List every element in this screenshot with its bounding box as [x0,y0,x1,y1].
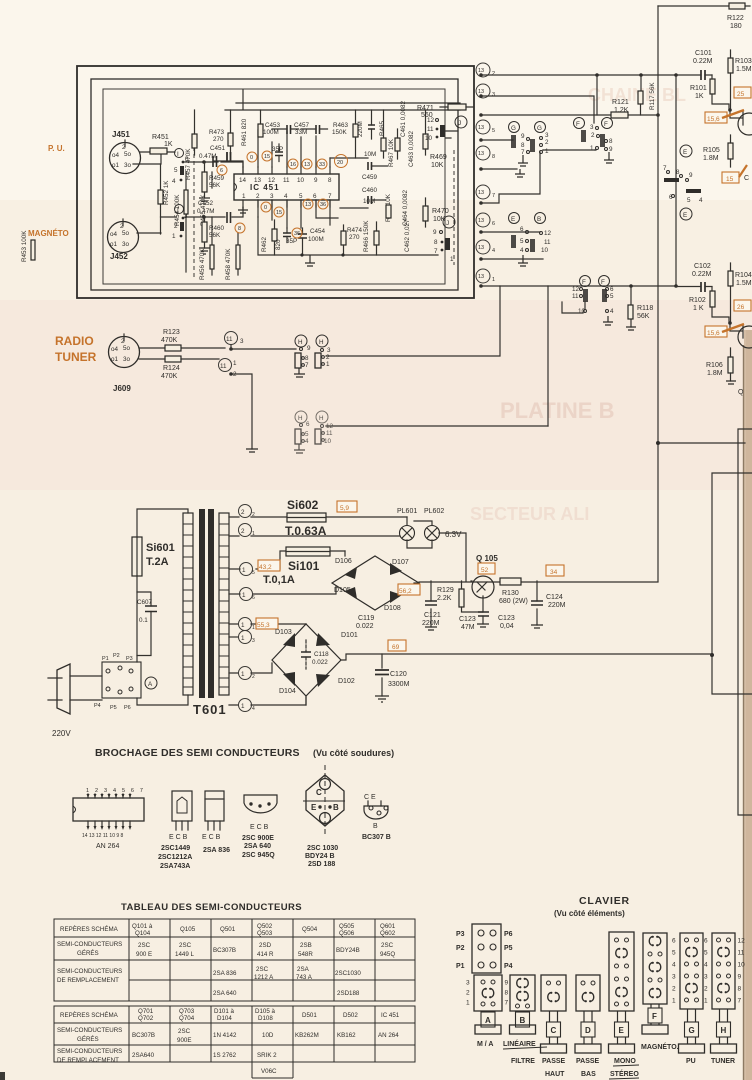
dashed separator line 2 [453,150,455,265]
resistor R465 [379,110,386,158]
svg-text:2SD188: 2SD188 [337,990,360,997]
svg-text:AN 264: AN 264 [96,843,119,850]
svg-text:F: F [576,121,580,128]
svg-text:Q105: Q105 [180,926,196,933]
transistor pkg 2SC1030 [303,765,345,868]
svg-text:H: H [298,415,303,422]
svg-text:945Q: 945Q [380,951,395,958]
clavier switch F [642,933,668,1034]
svg-text:2: 2 [252,512,255,518]
svg-text:34: 34 [550,569,558,576]
clavier switch E [609,932,635,1053]
resistor R105 [703,135,733,167]
orange box 15,6 top [705,110,744,123]
svg-text:2SC 945Q: 2SC 945Q [242,852,275,859]
svg-text:2SC1212A: 2SC1212A [158,854,192,861]
svg-text:6.3V: 6.3V [445,530,462,539]
svg-text:2SA 836: 2SA 836 [203,847,230,854]
capacitor C451 coupling 0.47M [199,153,217,167]
svg-text:414 R: 414 R [257,951,274,958]
wire bridge out [341,654,712,660]
clavier switch G [672,933,705,1053]
svg-text:6: 6 [672,938,676,945]
svg-text:(Vu côté éléments): (Vu côté éléments) [554,909,625,918]
capacitor C121 [422,581,441,630]
resistor R463 [332,110,358,158]
svg-text:2SC1449: 2SC1449 [161,845,190,852]
svg-text:56K: 56K [209,182,221,189]
svg-text:R121: R121 [612,99,629,106]
transistor Q102 [730,323,752,348]
svg-text:R103: R103 [735,58,752,65]
svg-text:10K: 10K [431,162,444,169]
svg-text:H: H [319,415,324,422]
svg-text:E C B: E C B [250,824,269,831]
svg-text:B: B [537,216,541,223]
svg-text:10M: 10M [364,151,376,158]
label C119 [356,615,374,630]
svg-text:BDY24 B: BDY24 B [305,853,335,860]
ground under 11 [246,449,258,452]
svg-text:743 A: 743 A [296,974,313,981]
wire R121 R117 [597,75,641,115]
svg-text:11: 11 [738,950,745,957]
svg-text:SEMI-CONDUCTEURS: SEMI-CONDUCTEURS [57,1048,122,1055]
resistor R122 [727,3,745,30]
svg-text:2SC: 2SC [381,942,394,949]
svg-text:8: 8 [328,177,332,184]
clavier switch A [466,975,509,1034]
svg-text:G: G [511,125,516,132]
svg-text:4: 4 [699,197,703,204]
svg-text:7: 7 [738,998,742,1005]
svg-text:10: 10 [297,177,305,184]
svg-text:Q: Q [738,389,744,396]
capacitor C124 [531,581,566,628]
svg-text:CLAVIER: CLAVIER [579,895,630,907]
svg-text:5: 5 [492,128,495,134]
switch circle J2 [443,216,455,228]
svg-text:R130: R130 [502,590,519,597]
semiconductor table 1 [54,919,415,1001]
svg-text:1: 1 [466,1000,470,1007]
svg-text:180: 180 [730,23,742,30]
svg-text:Q104: Q104 [135,930,151,937]
svg-text:15: 15 [276,210,282,216]
svg-text:2: 2 [256,193,260,200]
svg-text:D502: D502 [343,1012,358,1019]
svg-text:C: C [316,788,322,797]
svg-text:15: 15 [264,154,270,160]
label MAGNETO [28,229,69,238]
clavier labels [477,1039,735,1079]
resistor R123 [161,329,181,351]
svg-text:E C B: E C B [169,834,188,841]
svg-text:G: G [537,125,542,132]
lamps PL601 PL602 [397,508,466,581]
orange box 34 [546,565,564,576]
resistor R458 [225,245,240,280]
svg-text:1: 1 [672,998,676,1005]
svg-text:220M: 220M [422,620,440,627]
wire upper link [547,286,549,426]
ghost print pink [470,85,686,524]
svg-text:E: E [683,212,687,219]
svg-text:5,9: 5,9 [340,505,349,512]
svg-text:1: 1 [242,567,246,574]
svg-text:11: 11 [226,336,233,343]
svg-text:R456 470K: R456 470K [199,248,206,280]
vertical bus 2 [675,75,677,286]
svg-text:R457 470K: R457 470K [185,148,192,180]
svg-text:R459: R459 [209,175,225,182]
capacitor C461 [400,100,407,137]
wire pin row C [481,113,660,117]
orange box 26 [734,300,751,311]
svg-text:220M: 220M [357,121,364,137]
svg-text:R461 820: R461 820 [241,118,248,146]
svg-text:7: 7 [434,248,438,255]
svg-text:3: 3 [492,92,495,98]
orange box 56,2 [398,584,420,595]
svg-text:220M: 220M [548,602,566,609]
svg-text:B: B [333,803,339,812]
svg-text:4: 4 [672,962,676,969]
svg-text:5: 5 [687,197,691,204]
svg-text:3o: 3o [123,356,131,363]
svg-text:DE REMPLACEMENT: DE REMPLACEMENT [57,1057,119,1064]
svg-text:Si101: Si101 [288,559,320,573]
label Q102 [738,389,744,396]
svg-text:R105: R105 [703,147,720,154]
svg-text:6: 6 [520,226,524,233]
svg-text:C123: C123 [459,616,476,623]
svg-text:52: 52 [481,567,489,574]
node Q102 base [728,321,732,325]
capacitor C607 [137,592,157,656]
svg-text:C: C [744,175,749,182]
svg-text:MONO: MONO [614,1058,636,1065]
svg-text:R118: R118 [637,305,653,312]
svg-text:15: 15 [726,176,734,183]
svg-text:6: 6 [306,421,310,428]
resistor R471 [417,104,474,119]
svg-text:5: 5 [610,293,614,300]
orange measure points [217,151,348,238]
svg-text:5: 5 [704,950,708,957]
svg-text:D501: D501 [302,1012,317,1019]
svg-text:9: 9 [314,177,318,184]
svg-text:2: 2 [326,354,330,361]
transformer T601 core [199,509,214,698]
svg-text:2: 2 [233,371,237,378]
svg-text:R453 100K: R453 100K [21,230,28,262]
svg-text:2: 2 [591,132,595,139]
svg-text:(Vu côté soudures): (Vu côté soudures) [313,748,394,758]
svg-text:C118: C118 [314,651,329,658]
resistor R124 [161,356,181,380]
svg-text:33: 33 [319,162,325,168]
svg-text:2SB: 2SB [300,942,312,949]
svg-text:6: 6 [220,168,223,174]
svg-text:R460: R460 [209,225,225,232]
svg-text:PL601: PL601 [397,508,417,515]
svg-text:0,04: 0,04 [500,623,514,630]
svg-text:2SC1030: 2SC1030 [335,970,361,977]
svg-text:5o: 5o [122,230,130,237]
resistor R460 [199,217,225,254]
svg-text:7: 7 [328,193,332,200]
svg-text:69: 69 [392,644,400,651]
capacitor C101 [676,50,713,80]
wire bottom channel [137,207,243,233]
fuse Si602 [285,498,327,538]
svg-text:C121: C121 [424,612,441,619]
svg-text:3: 3 [672,974,676,981]
svg-text:270: 270 [349,234,360,241]
svg-text:3: 3 [270,193,274,200]
svg-text:MAGNÉTO: MAGNÉTO [28,229,69,238]
resistor R103 [728,50,752,110]
resistor R453 [21,230,35,262]
svg-text:4: 4 [492,248,495,254]
capacitor C464 [402,189,409,226]
svg-text:270: 270 [213,136,224,143]
transistor pkg BC307B [362,794,391,841]
svg-text:2SC: 2SC [256,966,269,973]
svg-text:9: 9 [307,345,311,352]
svg-text:D101: D101 [341,632,358,639]
svg-text:D103: D103 [275,629,292,636]
svg-text:8: 8 [305,355,309,362]
svg-text:2SD 188: 2SD 188 [308,861,335,868]
svg-text:D105 à: D105 à [255,1008,276,1015]
svg-text:R124: R124 [163,365,180,372]
svg-text:o4: o4 [111,346,119,353]
svg-text:GÉRÉS: GÉRÉS [77,950,99,957]
svg-text:16: 16 [290,162,296,168]
svg-text:Si602: Si602 [287,498,319,512]
svg-text:55,3: 55,3 [257,622,270,629]
svg-text:8: 8 [434,239,438,246]
svg-text:0.022: 0.022 [356,623,374,630]
transistor pkg 2SC1449 [158,791,192,870]
svg-text:V06C: V06C [261,1068,277,1075]
svg-text:150K: 150K [332,129,348,136]
resistor R101 [690,75,729,110]
svg-text:GÉRÉS: GÉRÉS [77,1036,99,1043]
svg-text:R104: R104 [735,272,752,279]
svg-text:J452: J452 [110,252,128,261]
wire main out [419,581,658,583]
svg-text:R122: R122 [727,15,744,22]
svg-text:R471: R471 [417,105,434,112]
svg-text:Q701: Q701 [138,1008,154,1015]
svg-text:RADIO: RADIO [55,334,94,348]
svg-text:P3: P3 [126,656,133,662]
svg-text:9: 9 [689,172,693,179]
svg-text:1: 1 [590,145,594,152]
resistor R457 [185,110,197,180]
svg-text:2SD: 2SD [259,942,272,949]
transistor Q101 [730,110,752,135]
transistor Q105 [471,554,498,612]
svg-text:100M: 100M [263,129,279,136]
svg-text:D104: D104 [279,688,296,695]
svg-text:Q702: Q702 [138,1015,154,1022]
svg-text:Q703: Q703 [179,1008,195,1015]
wire right mid bracket [656,441,745,445]
wire H2 to right [326,425,548,427]
svg-text:REPÈRES SCHÉMA: REPÈRES SCHÉMA [60,926,119,933]
wire pin row D [481,139,513,141]
svg-text:900E: 900E [177,1037,191,1044]
svg-text:4: 4 [305,438,309,445]
semiconductor table 2 [54,1006,415,1078]
svg-text:470K: 470K [161,337,178,344]
svg-text:C102: C102 [694,263,711,270]
svg-text:6: 6 [492,221,495,227]
svg-text:5: 5 [299,193,303,200]
svg-text:P. U.: P. U. [48,144,65,153]
wire primary top [137,509,188,662]
svg-text:3o: 3o [122,241,130,248]
svg-text:C460: C460 [362,187,378,194]
svg-text:36: 36 [294,231,300,237]
connector J452 [108,219,139,261]
resistor R451 [150,134,173,154]
svg-text:C120: C120 [390,671,407,678]
svg-text:5: 5 [305,431,309,438]
svg-text:C453: C453 [265,122,281,129]
svg-text:2SA 640: 2SA 640 [213,990,237,997]
svg-text:C101: C101 [695,50,712,57]
svg-text:1449 L: 1449 L [175,951,194,958]
main vertical bus [657,6,659,581]
svg-text:R451: R451 [152,134,169,141]
svg-text:C E: C E [364,794,376,801]
svg-text:F: F [601,279,605,286]
switch group E right [663,145,703,220]
svg-text:E: E [683,149,687,156]
preamp inner box 2 [103,89,445,284]
svg-text:H: H [721,1026,727,1035]
svg-text:D108: D108 [384,605,401,612]
switch circle J1 [455,116,467,128]
svg-text:20: 20 [337,160,343,166]
svg-text:AN 264: AN 264 [378,1032,399,1039]
capacitor 35P bottom [283,228,297,245]
svg-text:1N 4142: 1N 4142 [213,1032,237,1039]
svg-text:J: J [458,120,461,127]
svg-text:14: 14 [239,177,247,184]
svg-text:C461 0,0082: C461 0,0082 [400,100,407,137]
svg-text:13: 13 [478,190,484,196]
svg-text:2: 2 [241,528,245,535]
capacitor C463 [408,130,415,167]
transformer T601 primary winding [183,513,193,695]
IC pin1 ground [238,207,248,213]
svg-text:10: 10 [425,135,433,142]
wire J451 outputs [133,152,175,164]
svg-text:10: 10 [578,308,586,315]
secondary tap 1-4 [229,697,306,712]
label P.U. [48,144,65,153]
svg-text:2: 2 [704,986,708,993]
capacitor C460 [340,187,386,208]
resistor R473 [209,110,233,154]
svg-text:R452 1K: R452 1K [163,180,170,205]
orange box 5,9 [337,501,357,512]
resistor R104 [728,263,752,323]
svg-text:CHAINE BL: CHAINE BL [588,85,686,105]
svg-text:13: 13 [478,68,484,74]
orange box 25 [734,87,751,98]
svg-text:BC307B: BC307B [132,1032,155,1039]
svg-text:C124: C124 [546,594,563,601]
svg-text:PASSE: PASSE [576,1058,600,1065]
svg-text:2SA743A: 2SA743A [160,863,190,870]
wire pin row A [481,73,678,77]
resistor R455 [200,194,207,226]
svg-text:1.5M: 1.5M [736,66,752,73]
resistor R130 [499,578,528,605]
svg-text:C457: C457 [294,122,310,129]
svg-text:J451: J451 [112,130,130,139]
svg-text:47M: 47M [461,624,475,631]
svg-text:13: 13 [478,274,484,280]
svg-text:Q504: Q504 [302,926,318,933]
wire pin row F [481,152,540,203]
svg-text:4: 4 [520,247,524,254]
svg-text:4: 4 [610,308,614,315]
dashed separator line [193,147,195,280]
svg-text:25: 25 [737,91,745,98]
pin circle 11-1 [219,359,238,379]
svg-text:TUNER: TUNER [711,1058,735,1065]
orange box 43,2 [258,560,280,571]
svg-text:2: 2 [252,674,255,680]
svg-text:R117 56K: R117 56K [649,82,656,110]
svg-text:BAS: BAS [581,1071,596,1078]
resistor R469 [423,110,447,169]
svg-text:1K: 1K [695,93,704,100]
svg-text:3: 3 [704,974,708,981]
title clavier [554,895,630,918]
switch group E mid [509,213,552,267]
svg-text:R473: R473 [209,129,225,136]
svg-text:1: 1 [450,256,454,263]
svg-text:Q503: Q503 [257,930,273,937]
svg-text:Q602: Q602 [380,930,396,937]
clavier switch B [510,975,536,1034]
secondary tap 2-2 [229,505,407,519]
svg-text:D: D [585,1026,591,1035]
wire IC bottom bus [258,200,338,228]
svg-text:C607: C607 [137,599,153,606]
node A [145,677,157,689]
svg-text:4: 4 [252,706,255,712]
svg-text:D105: D105 [334,587,351,594]
svg-text:Q506: Q506 [339,930,355,937]
resistor R459 [199,162,225,204]
svg-text:E C B: E C B [202,834,221,841]
wire IC top bus [213,130,330,167]
svg-text:5o: 5o [124,151,132,158]
wire left resistor column [186,172,238,275]
svg-text:o1: o1 [110,241,118,248]
connector block P [94,653,141,711]
